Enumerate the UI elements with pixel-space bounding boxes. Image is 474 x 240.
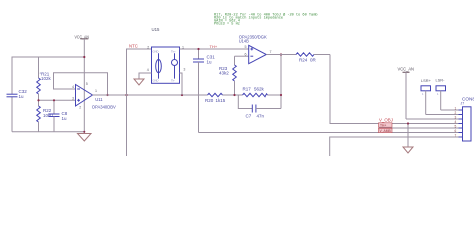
svg-text:3: 3 <box>72 97 74 101</box>
junction R21/R22 node <box>37 99 39 101</box>
power symbol VCC_AN right <box>398 67 415 119</box>
svg-text:LSR-: LSR- <box>436 78 446 83</box>
svg-text:1: 1 <box>455 107 457 111</box>
wire U14B -input <box>235 55 249 57</box>
svg-text:47n: 47n <box>257 113 265 118</box>
svg-text:3: 3 <box>183 68 185 72</box>
resistor R23 <box>219 56 236 95</box>
junction C8 tap <box>53 99 55 101</box>
wire LSR- to connector <box>441 109 463 111</box>
capacitor C31 <box>193 49 215 133</box>
wire TH+ run to connector <box>379 127 463 129</box>
svg-text:2: 2 <box>455 111 457 115</box>
svg-text:1k15: 1k15 <box>216 98 226 103</box>
capacitor C7 <box>246 105 282 119</box>
svg-text:R20: R20 <box>205 98 214 103</box>
junction VCC/top rail <box>83 56 85 58</box>
junction U15 pin3 node <box>181 94 183 96</box>
wire VCC_AN to connector <box>406 118 463 120</box>
svg-text:R17: R17 <box>243 86 252 91</box>
svg-text:1u: 1u <box>62 116 68 121</box>
svg-text:6: 6 <box>245 53 247 57</box>
sensor U15 <box>147 27 186 83</box>
note design text <box>214 12 318 26</box>
svg-text:4: 4 <box>147 68 149 72</box>
svg-text:Th-: Th- <box>171 79 175 83</box>
resistor R20 <box>205 93 243 103</box>
svg-text:V_AMB: V_AMB <box>380 129 392 133</box>
capacitor C8 <box>49 100 68 132</box>
junction R17 row right <box>280 94 282 96</box>
jumper LSR- <box>436 78 446 110</box>
svg-text:4: 4 <box>455 120 457 124</box>
wire LSR+ to connector <box>426 114 463 116</box>
svg-text:Th+: Th+ <box>171 50 176 54</box>
svg-text:0R: 0R <box>310 57 317 62</box>
ground U11 <box>78 132 92 141</box>
port TH+ <box>379 123 393 128</box>
op-amp U14B <box>239 34 272 63</box>
svg-text:5: 5 <box>455 125 457 129</box>
svg-text:5: 5 <box>245 45 247 49</box>
svg-text:43k2: 43k2 <box>219 71 229 76</box>
wire NTC vertical <box>127 49 152 156</box>
svg-text:R24: R24 <box>299 57 308 62</box>
junction output tap <box>280 53 282 55</box>
svg-text:7: 7 <box>270 50 272 54</box>
wire VCC stem through op-amp to ground rail <box>83 57 85 132</box>
svg-text:TH+: TH+ <box>210 44 218 49</box>
ground right <box>403 124 413 154</box>
svg-text:V_OBJ: V_OBJ <box>379 117 393 122</box>
wire V_OBJ drop and run <box>330 55 463 124</box>
wire feedback loop U11 <box>54 73 108 95</box>
wire node to op-amp +input <box>39 99 76 101</box>
resistor R17 <box>243 86 282 96</box>
resistor R22 <box>37 100 54 132</box>
resistor R24 <box>296 53 330 63</box>
svg-text:TH+: TH+ <box>380 123 386 127</box>
port V_AMB <box>379 128 393 133</box>
svg-text:LSR+: LSR+ <box>421 78 432 83</box>
wire feedback right vertical <box>280 55 282 109</box>
connector CON8 J7 <box>455 97 474 141</box>
svg-text:2: 2 <box>147 45 149 49</box>
svg-text:1: 1 <box>95 89 97 93</box>
wire bottom-left ground rail <box>12 131 84 133</box>
svg-text:5: 5 <box>86 82 88 86</box>
wire U11 output rail to R20 row <box>93 94 208 96</box>
junction NTC node <box>125 94 127 96</box>
svg-text:2: 2 <box>79 106 81 110</box>
svg-text:6: 6 <box>455 129 457 133</box>
svg-text:POLE3 = 5 Hz: POLE3 = 5 Hz <box>214 23 240 27</box>
svg-text:7: 7 <box>455 134 457 138</box>
svg-text:C7: C7 <box>246 113 252 118</box>
svg-text:562k: 562k <box>254 86 265 91</box>
wire bottom run from off-page to connector <box>330 137 463 156</box>
junction C31 tap <box>197 48 199 50</box>
svg-text:U14B: U14B <box>239 39 249 44</box>
svg-text:1u: 1u <box>207 59 213 64</box>
svg-text:1u: 1u <box>19 94 25 99</box>
jumper LSR+ <box>421 78 432 115</box>
junction feedback tap <box>106 94 108 96</box>
wire TH+ net U15 pin1 to U14B +input <box>180 48 249 50</box>
wire C7 branch left <box>238 95 252 109</box>
svg-text:3: 3 <box>455 116 457 120</box>
power symbol VCC_AN left <box>75 34 90 57</box>
op-amp U11 <box>72 82 116 110</box>
svg-text:GND: GND <box>153 79 159 83</box>
svg-text:OPA340DBV: OPA340DBV <box>92 105 116 110</box>
svg-text:U11: U11 <box>95 97 103 102</box>
wire U15 pin3 down to R20 row <box>180 73 183 95</box>
svg-text:4: 4 <box>72 85 74 89</box>
junction right ground stem <box>407 122 409 124</box>
svg-text:102k: 102k <box>41 76 52 81</box>
resistor R21 <box>37 57 52 100</box>
wire U14B output <box>266 54 296 56</box>
wire U15 pin4 to ground <box>139 73 152 79</box>
junction R23 bottom <box>233 94 235 96</box>
capacitor C32 <box>7 89 28 99</box>
wire top-left rail <box>12 57 84 132</box>
wire long V_AMB rail <box>199 132 463 134</box>
junction ground corner <box>83 131 85 133</box>
ground U15 <box>134 79 144 85</box>
svg-text:GND: GND <box>153 50 159 54</box>
svg-text:U15: U15 <box>152 27 160 32</box>
svg-text:NTC: NTC <box>129 43 138 48</box>
svg-text:J7: J7 <box>461 102 465 106</box>
svg-text:VCC_AN: VCC_AN <box>398 67 415 73</box>
